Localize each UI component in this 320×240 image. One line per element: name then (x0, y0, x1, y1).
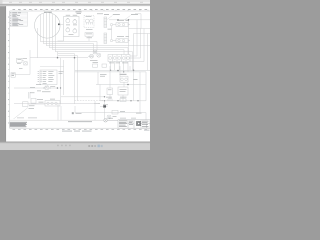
connector J4 at sheet edge (11, 73, 15, 78)
junction on wire y84 (127, 84, 129, 86)
junction on bus y19.8 (117, 19, 118, 20)
wire verticals lower right (100, 66, 146, 113)
switch S1 cluster (17, 58, 28, 65)
control unit U1 with four gauges (58, 17, 80, 42)
toolbar shadow band (0, 3, 150, 6)
junction on bus y70 (133, 70, 135, 72)
title block (118, 120, 150, 128)
leader lines with labels (107, 16, 131, 20)
junction wire y100.8 c (137, 100, 138, 101)
terminal block TB1 (85, 33, 93, 37)
bottom transition + status bar (0, 142, 150, 143)
viewer background (0, 0, 150, 150)
connector J3 (5-pin block) (108, 55, 130, 72)
relay K2 with contacts (110, 39, 130, 43)
pin numbers of X1 (38, 71, 40, 82)
relay K1 with contacts (110, 23, 130, 27)
fuse F1 (dark element) (103, 105, 106, 107)
wire rails center bottom (61, 97, 105, 119)
motor group M2 M3 (dashed enclosure) (84, 16, 94, 28)
cable label under rail (68, 120, 92, 123)
contact S3 and coil K5 (107, 99, 126, 119)
toolbar strip (0, 0, 150, 4)
junction on bus y70 mid (117, 70, 119, 72)
junction at S2 output (57, 87, 59, 89)
legend table top-left (10, 12, 28, 26)
bus wire B2 (10, 101, 146, 120)
switch S2 (14, 86, 58, 89)
frame borders (10, 11, 151, 128)
junction right of S2 (60, 87, 61, 88)
zone dashes below frame bottom (13, 128, 148, 131)
verticals below circle to lower area (37, 28, 39, 58)
terminal strip X1 with legend text (40, 70, 57, 85)
status bar icons (57, 145, 103, 148)
leader line with labels bottom-left (14, 108, 29, 120)
zone number dashes along top (13, 8, 148, 11)
junction on bus y19.8 right (128, 19, 129, 20)
lamp L4 (104, 119, 118, 123)
junction rail y100.4 (104, 100, 105, 101)
wire above terminal strip X1 (40, 66, 64, 68)
contactor K4 group (75, 64, 150, 95)
page (6, 6, 150, 141)
junction B1-left (57, 57, 59, 59)
motor M1 (main machine circle) (35, 12, 61, 38)
doc number text below frame (62, 130, 150, 132)
left ruler ticks (8, 23, 9, 117)
node A (motor M1 terminal) (58, 24, 60, 26)
wire bundle right side (109, 14, 150, 71)
labels below top frame line (44, 11, 82, 14)
wire bundle from motor M1 to right-side loads (38, 13, 151, 71)
junction J3 pin1 drop (110, 70, 111, 71)
connectors J1 J2 (hatched strips) (104, 17, 107, 44)
junction J3 pin4 drop (123, 71, 124, 72)
lamps L1 L2 L3 (88, 50, 101, 58)
junction wire y100.8 b (130, 100, 131, 101)
notes block (10, 122, 27, 127)
junction B1-right (74, 57, 76, 59)
fuse F2 (x-box) (45, 86, 49, 89)
zone letters along left (7, 17, 10, 124)
junction wire y100.8 a (117, 100, 118, 101)
junction rail y96.8 (104, 96, 105, 97)
relay K3 and connector J5 (23, 92, 61, 106)
top ruler ticks (20, 10, 148, 11)
bus wire B1 (30, 50, 88, 104)
